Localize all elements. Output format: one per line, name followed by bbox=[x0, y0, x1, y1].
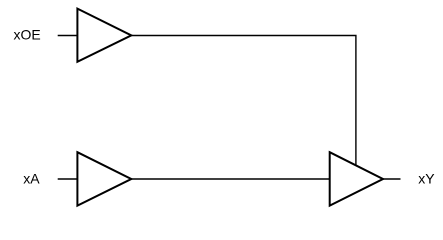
svg-text:xOE: xOE bbox=[14, 27, 41, 43]
svg-text:xA: xA bbox=[23, 170, 40, 186]
svg-text:xY: xY bbox=[418, 170, 435, 186]
